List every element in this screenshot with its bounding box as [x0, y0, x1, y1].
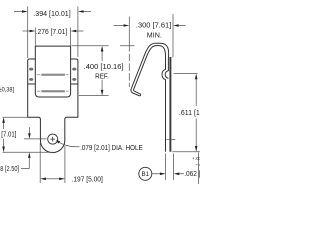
svg-text:.300 [7.61]: .300 [7.61]: [136, 23, 171, 30]
svg-text:.079 [2.01] DIA. HOLE: .079 [2.01] DIA. HOLE: [80, 145, 143, 152]
svg-text:REF.: REF.: [95, 73, 109, 80]
svg-text:.276 [7.01]: .276 [7.01]: [36, 29, 68, 36]
svg-text:MIN.: MIN.: [147, 33, 162, 40]
svg-text:[±0,38]: [±0,38]: [0, 87, 14, 94]
svg-text:[7.01]: [7.01]: [1, 132, 16, 139]
svg-text:B1: B1: [142, 171, 150, 178]
svg-text:.611 [15.52]: .611 [15.52]: [179, 110, 200, 117]
svg-text:.062 [1.57]: .062 [1.57]: [184, 171, 200, 178]
svg-text:.197 [5.00]: .197 [5.00]: [72, 176, 103, 183]
svg-text:.400 [10.16]: .400 [10.16]: [84, 64, 124, 71]
svg-text:+.015: +.015: [192, 156, 200, 162]
svg-text:.098 [2.50]: .098 [2.50]: [0, 166, 19, 173]
svg-text:−.000: −.000: [195, 163, 200, 169]
svg-text:.394 [10.01]: .394 [10.01]: [33, 11, 70, 18]
